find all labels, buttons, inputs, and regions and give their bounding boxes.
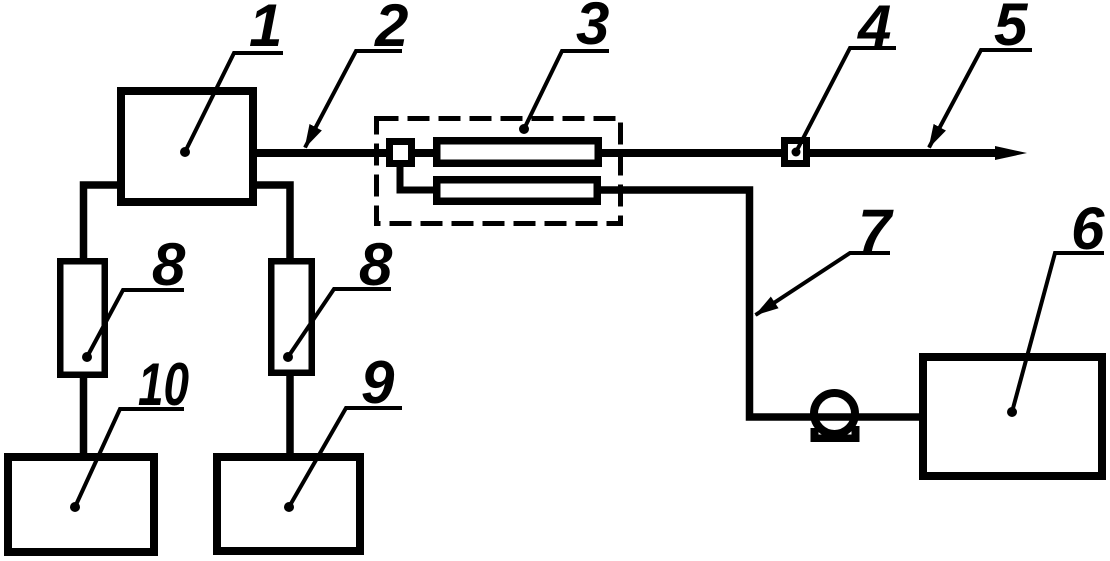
svg-text:8: 8 <box>359 231 393 298</box>
leader dot 6 <box>1007 407 1017 417</box>
leader 7 arrow <box>756 253 891 315</box>
leader 5 arrow <box>929 50 1032 148</box>
wire right branch from box 1 down <box>254 185 290 261</box>
wire main horizontal line 2 <box>257 149 999 157</box>
wire link square to lower tube <box>400 164 437 190</box>
leader dot 1 <box>180 147 190 157</box>
leader dot 8 left <box>82 352 92 362</box>
restrictor square 4 on line <box>785 141 807 164</box>
svg-text:5: 5 <box>994 0 1029 58</box>
leader dot 9 <box>284 502 294 512</box>
svg-text:4: 4 <box>857 0 891 60</box>
wire left vertical below rotameter 8 <box>80 375 88 456</box>
svg-text:1: 1 <box>249 0 282 59</box>
pump base bar <box>811 435 860 443</box>
svg-text:7: 7 <box>858 197 894 264</box>
box 10 <box>8 457 154 552</box>
rotameter 8 right <box>271 261 312 373</box>
box 1 generator <box>121 91 253 202</box>
pump base left tab <box>811 428 819 437</box>
upper tube of enclosure 3 <box>437 141 599 164</box>
box 9 <box>217 457 360 551</box>
wire left branch from box 1 down <box>84 185 121 261</box>
svg-text:10: 10 <box>138 351 189 418</box>
rotameter 8 left <box>60 261 105 375</box>
leader 10 <box>75 409 184 507</box>
mixer square inside enclosure 3 <box>390 142 412 164</box>
leader 2 arrow <box>305 51 402 148</box>
svg-text:6: 6 <box>1071 195 1105 262</box>
leader 6 <box>1012 253 1104 412</box>
svg-text:9: 9 <box>361 349 395 416</box>
dashed box 3 enclosure <box>377 119 621 224</box>
leader 3 <box>524 51 609 129</box>
leader 8 right <box>288 289 391 357</box>
leader 4 <box>796 48 896 152</box>
leader 1 <box>185 53 283 152</box>
leader 8 left <box>87 290 184 357</box>
svg-text:8: 8 <box>152 231 186 298</box>
wire right vertical below rotameter 8 <box>286 373 294 456</box>
leader dot 10 <box>70 502 80 512</box>
leader 9 <box>289 408 402 507</box>
leader dot 8 right <box>283 352 293 362</box>
lower tube of enclosure 3 <box>437 180 598 202</box>
pump circle <box>814 393 855 434</box>
arrowhead end of line 5 <box>995 146 1027 160</box>
box 6 receiver <box>923 357 1102 476</box>
leader dot 3 <box>519 124 529 134</box>
svg-text:3: 3 <box>576 0 609 57</box>
svg-text:2: 2 <box>374 0 408 59</box>
pump base right tab <box>852 426 860 437</box>
wire lower line 7 from heat exchanger to pump <box>598 190 923 417</box>
leader dot 4 <box>792 148 801 157</box>
